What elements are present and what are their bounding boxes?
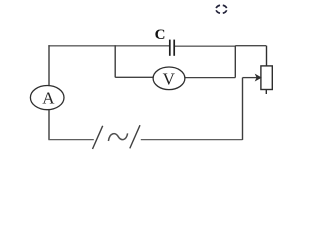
svg-text:V: V xyxy=(163,70,176,89)
svg-text:C: C xyxy=(155,27,166,43)
svg-text:A: A xyxy=(42,89,55,108)
